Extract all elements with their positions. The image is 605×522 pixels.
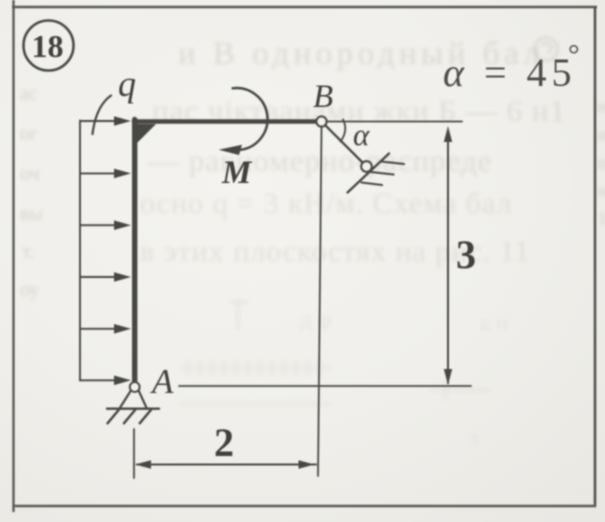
svg-text:3: 3 — [456, 232, 476, 277]
link ground hatch 3 — [362, 183, 383, 186]
dimension 2 left extension line — [133, 429, 135, 478]
load arrow 4 — [80, 272, 131, 282]
pin support at node A: pin circle — [130, 382, 140, 392]
svg-text:— равномерно-распреде: — равномерно-распреде — [147, 143, 492, 178]
link ground line — [348, 154, 390, 193]
problem number badge 18 — [24, 21, 74, 71]
support A triangle left side — [120, 390, 131, 408]
svg-text:шт: шт — [597, 153, 605, 172]
svg-text:ас: ас — [20, 83, 38, 105]
figure text labels — [118, 39, 580, 465]
svg-text:B: B — [313, 79, 333, 115]
support A hatch 2 — [124, 410, 135, 424]
horizontal dimension line 2 — [137, 464, 316, 466]
svg-text:к п: к п — [480, 310, 508, 335]
load arrow 5 — [80, 324, 131, 334]
svg-text:ог: ог — [20, 123, 38, 145]
bleed-through text from reverse page — [140, 36, 566, 450]
dimension 3 top arrowhead — [444, 126, 452, 142]
link lower pin — [361, 161, 371, 171]
svg-text:α = 45: α = 45 — [443, 50, 577, 95]
svg-text:q: q — [118, 64, 136, 104]
dimension extension line right of B — [327, 121, 462, 123]
dimension 2 right arrowhead — [299, 460, 315, 468]
moment arc M — [233, 88, 268, 150]
svg-text:оу: оу — [20, 279, 39, 301]
page border: bottom rule — [13, 505, 596, 507]
corner gusset — [137, 124, 156, 143]
load arrow 6 — [80, 376, 131, 386]
dimension 3 bottom arrowhead — [444, 369, 452, 385]
svg-text:18: 18 — [32, 28, 64, 64]
dimension 2 left arrowhead — [135, 460, 151, 468]
svg-text:α: α — [353, 117, 370, 152]
support A hatch 3 — [140, 410, 151, 424]
svg-text:д φ: д φ — [300, 307, 332, 333]
top horizontal member — [134, 119, 318, 124]
load arrow 1 — [80, 116, 131, 126]
load label q leader curve — [93, 96, 112, 135]
svg-text:х: х — [470, 425, 481, 450]
page border: top rule — [12, 6, 597, 8]
svg-text:11: 11 — [598, 209, 605, 228]
svg-text:A: A — [150, 362, 174, 401]
support A hatch 1 — [108, 410, 119, 424]
left vertical member — [132, 120, 137, 386]
svg-text:ищ: ищ — [597, 125, 605, 144]
faint circled number bleed top-right — [535, 38, 558, 61]
svg-text:вы: вы — [20, 203, 43, 225]
support A triangle right side — [139, 390, 147, 408]
moment arrowhead — [219, 145, 243, 155]
load arrow 3 — [80, 220, 131, 230]
svg-text:на: на — [597, 181, 605, 200]
left margin bleed strip — [20, 83, 43, 301]
svg-text:°: ° — [568, 39, 580, 71]
load arrow 2 — [80, 169, 131, 179]
angle arc alpha at B — [341, 120, 346, 142]
main figure ink — [80, 88, 471, 478]
svg-text:2: 2 — [214, 420, 234, 465]
distributed load tail line — [79, 121, 81, 381]
svg-text:т.: т. — [22, 241, 34, 263]
inclined support link at B — [325, 125, 363, 163]
pin at node B — [317, 117, 327, 127]
page border: right rule — [594, 7, 597, 508]
faint diagram bleed lower-middle — [180, 300, 490, 404]
svg-text:нС: нС — [597, 97, 605, 116]
vertical extension line from B down — [318, 127, 322, 476]
right margin bleed strip — [597, 97, 605, 228]
link ground hatch 1 — [381, 162, 404, 165]
dimension extension line right of A — [179, 385, 471, 387]
svg-text:оч: оч — [20, 163, 40, 185]
link ground hatch 2 — [371, 172, 394, 175]
support A ground line — [107, 408, 159, 410]
svg-text:осно q = 3 кН/м. Схема бал: осно q = 3 кН/м. Схема бал — [140, 187, 513, 220]
vertical dimension line 3 — [447, 131, 449, 383]
page border: left column rule — [12, 0, 14, 512]
svg-text:M: M — [221, 155, 253, 191]
